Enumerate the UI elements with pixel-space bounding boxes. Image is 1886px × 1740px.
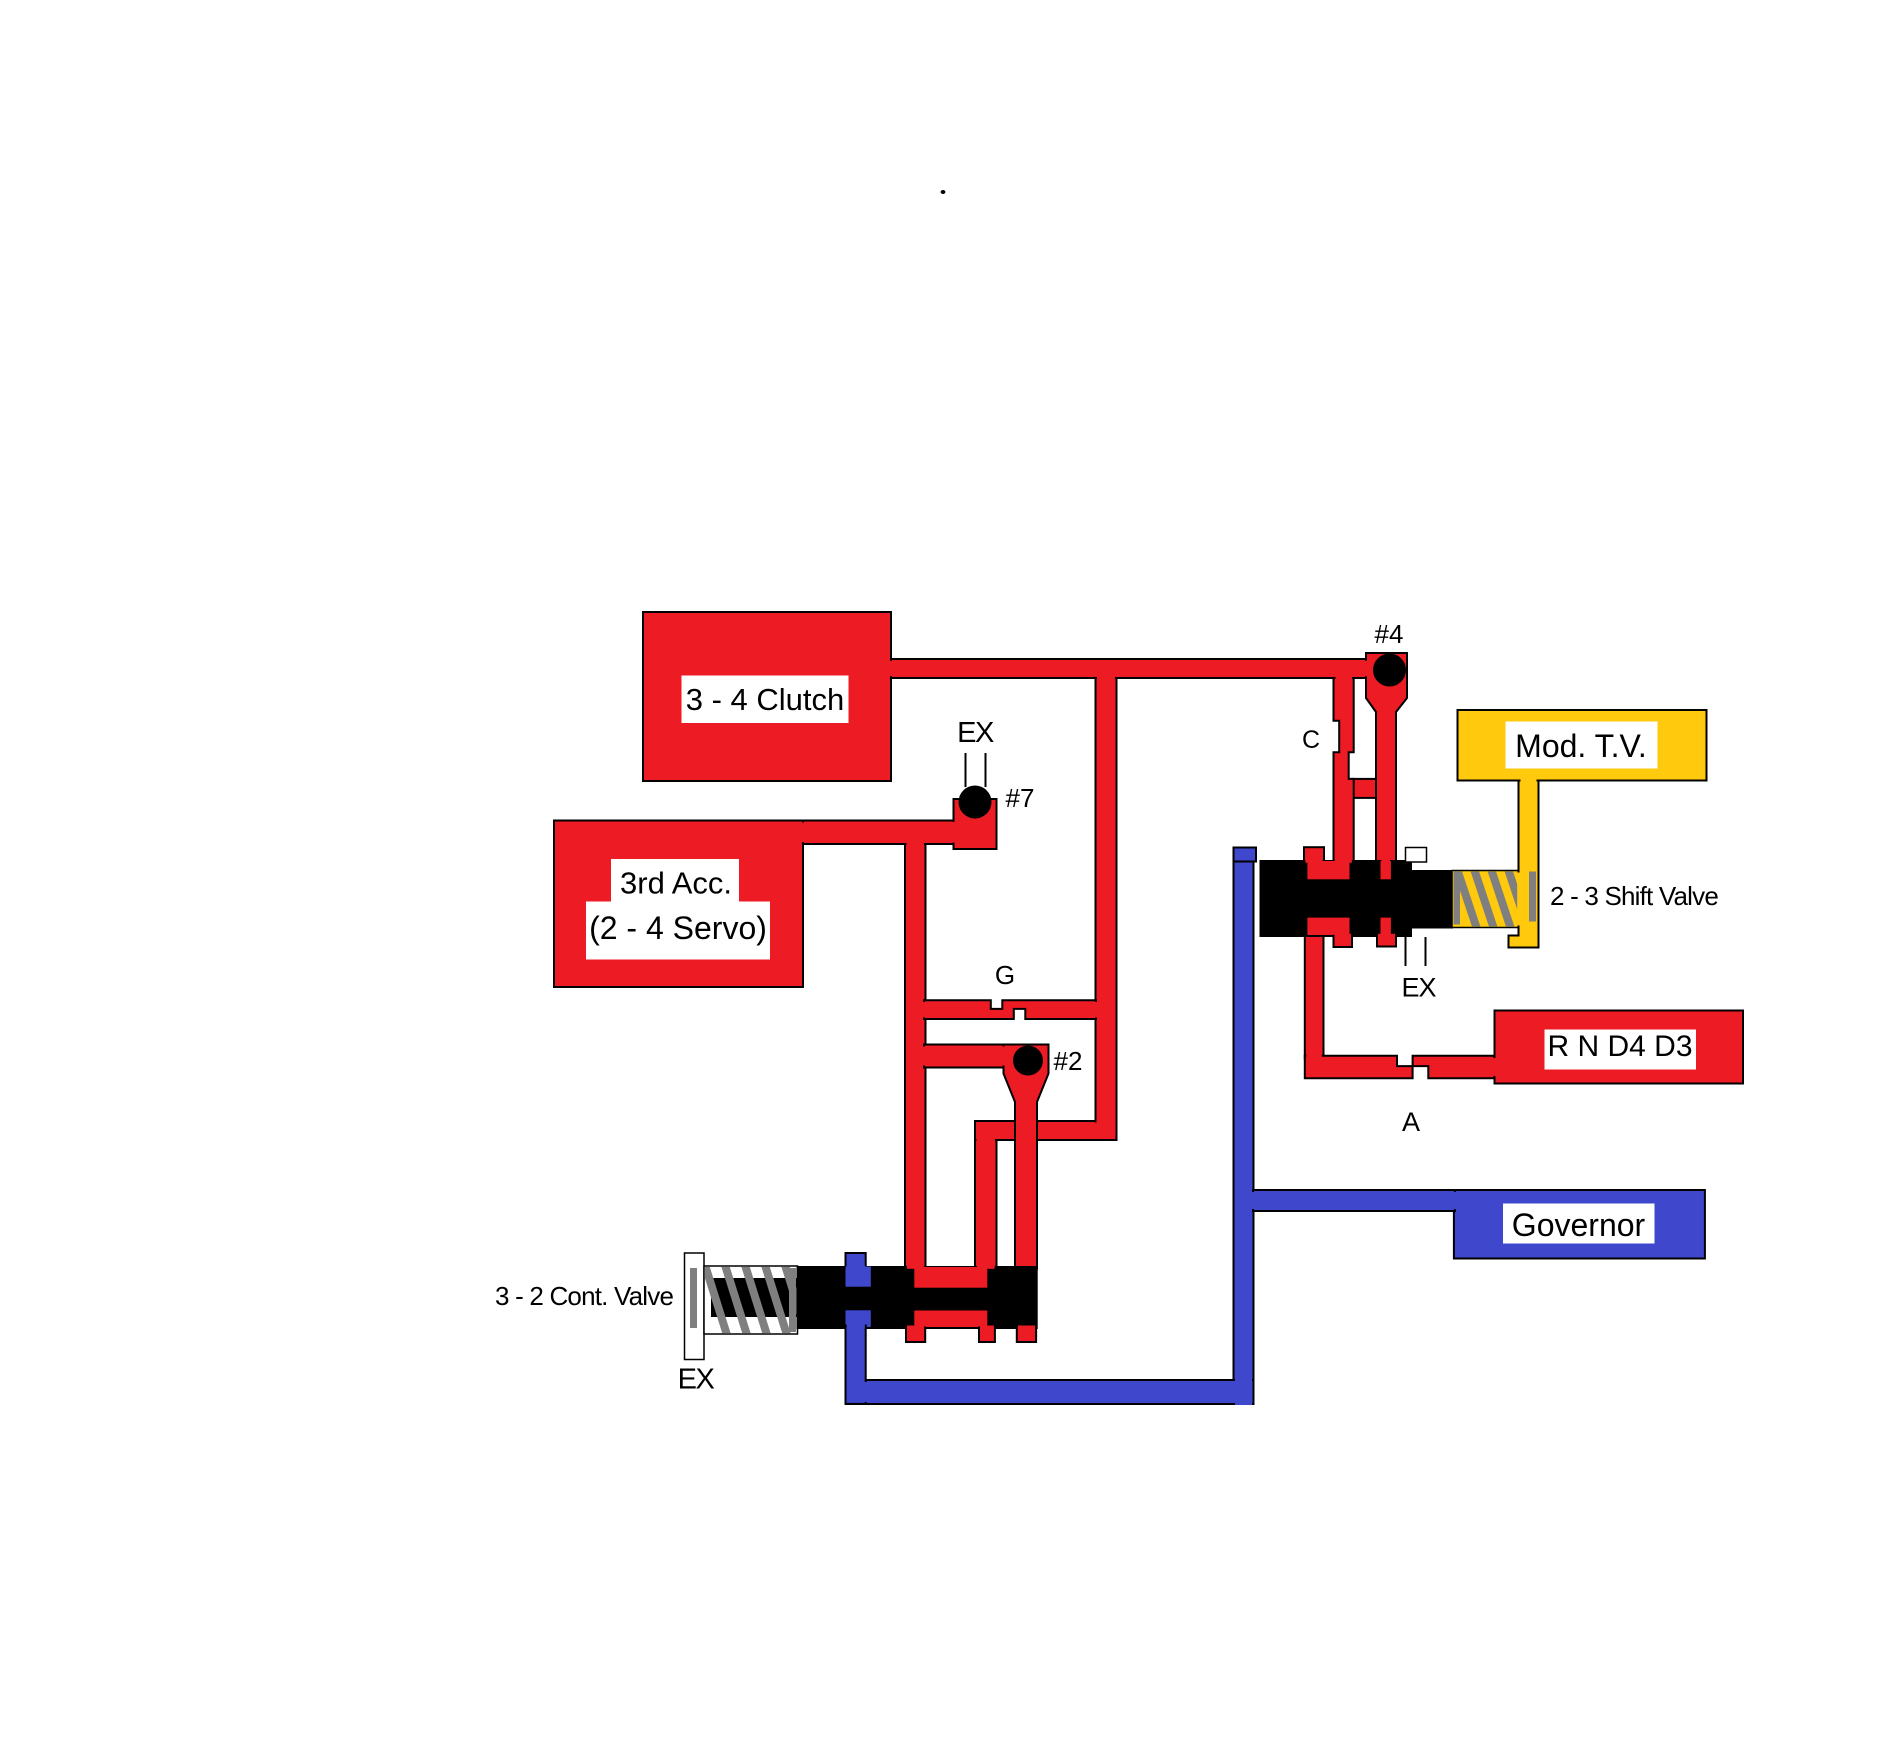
svg-text:Governor: Governor bbox=[1512, 1207, 1646, 1243]
svg-text:3 - 4 Clutch: 3 - 4 Clutch bbox=[686, 682, 845, 717]
svg-text:C: C bbox=[1302, 726, 1320, 754]
svg-text:3 - 2 Cont. Valve: 3 - 2 Cont. Valve bbox=[495, 1281, 673, 1311]
svg-text:EX: EX bbox=[1401, 973, 1436, 1003]
svg-text:R N D4 D3: R N D4 D3 bbox=[1547, 1030, 1692, 1063]
svg-text:(2 - 4 Servo): (2 - 4 Servo) bbox=[589, 910, 767, 946]
svg-text:EX: EX bbox=[678, 1364, 715, 1396]
svg-text:#7: #7 bbox=[1006, 783, 1035, 813]
svg-text:#2: #2 bbox=[1054, 1046, 1083, 1076]
svg-text:EX: EX bbox=[957, 717, 994, 749]
svg-text:2 - 3 Shift Valve: 2 - 3 Shift Valve bbox=[1550, 881, 1718, 911]
svg-text:3rd Acc.: 3rd Acc. bbox=[620, 866, 732, 901]
svg-text:Mod. T.V.: Mod. T.V. bbox=[1515, 728, 1647, 764]
svg-text:G: G bbox=[995, 960, 1015, 990]
svg-text:A: A bbox=[1402, 1107, 1420, 1137]
svg-text:#4: #4 bbox=[1375, 619, 1404, 649]
